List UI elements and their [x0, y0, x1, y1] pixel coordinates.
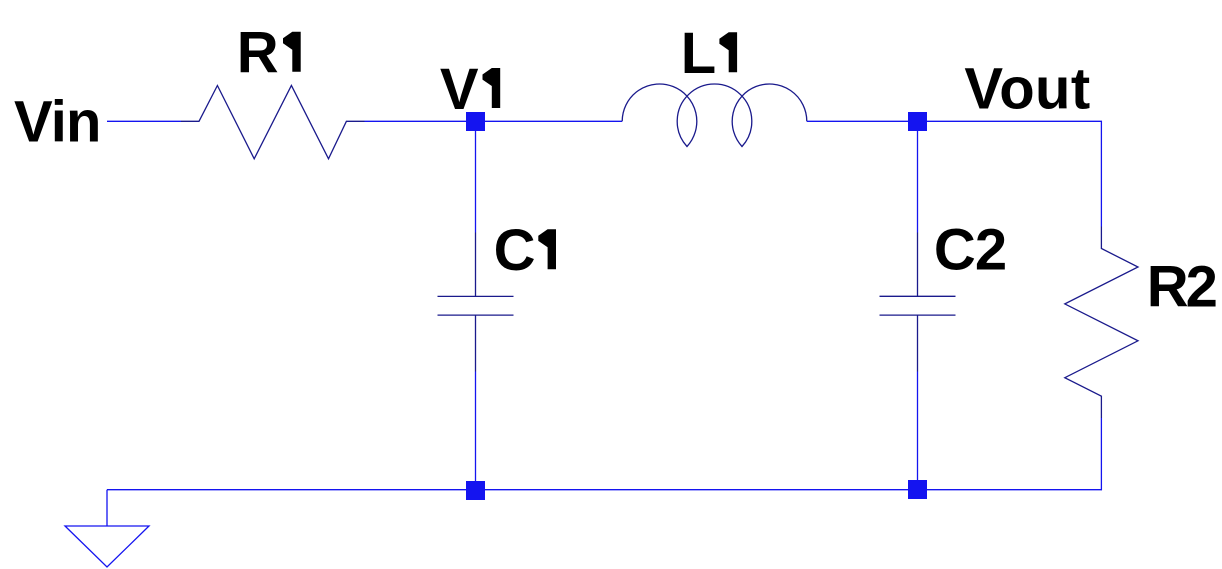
ground — [65, 526, 149, 567]
svg-text:R: R — [237, 21, 279, 86]
svg-text:Vout: Vout — [964, 57, 1090, 122]
node V1 junction — [466, 112, 485, 131]
svg-text:C2: C2 — [934, 218, 1006, 283]
wire Vin to R1 — [107, 120, 181, 122]
resistor R1 — [181, 86, 365, 159]
svg-text:V: V — [440, 57, 479, 122]
wire R1 to node V1 — [365, 120, 476, 122]
wire C2 bottom to rail — [917, 372, 919, 491]
resistor R2 — [1065, 227, 1138, 419]
node junction C2/rail — [908, 480, 927, 499]
svg-text:R2: R2 — [1147, 255, 1216, 320]
wire rail to ground symbol — [106, 490, 108, 526]
bottom ground rail wire — [107, 489, 1102, 491]
wire C1 bottom to rail — [475, 372, 477, 491]
svg-text:C: C — [494, 218, 536, 283]
inductor L1 — [622, 84, 807, 147]
capacitor C1 — [438, 233, 514, 372]
wire node Vout to top-right corner — [918, 121, 1102, 226]
node Vout junction — [908, 112, 927, 131]
wire C2 top (node Vout down to C2) — [917, 121, 919, 232]
wire node V1 to L1 — [476, 120, 623, 122]
wire L1 to node Vout — [807, 120, 918, 122]
node junction C1/rail — [466, 481, 485, 500]
capacitor C2 — [880, 233, 956, 372]
svg-text:Vin: Vin — [14, 89, 100, 154]
wire C1 top (node V1 down to C1) — [475, 121, 477, 232]
wire R2 to bottom rail — [1100, 418, 1102, 490]
svg-text:L: L — [681, 21, 716, 86]
